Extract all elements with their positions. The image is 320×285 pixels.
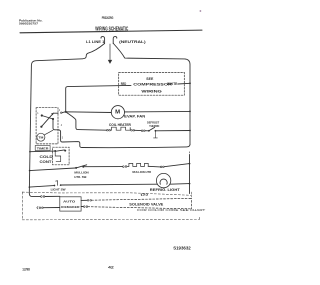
svg-text:AUTO: AUTO [63,200,76,204]
ground wire [109,44,111,60]
svg-text:REFRIG. LIGHT: REFRIG. LIGHT [150,188,180,192]
timer contact B [40,126,42,128]
svg-text:EVAP. FAN: EVAP. FAN [124,114,146,118]
timer node C [52,118,54,120]
connector pair heater left [107,129,109,131]
svg-text:THERMO: THERMO [149,124,160,128]
connector pair icemaker lower [39,207,41,209]
light row wire [29,186,53,188]
mullion switch contact right [82,166,84,168]
wire icemaker feed [29,193,40,197]
svg-text:MULLION: MULLION [74,170,89,174]
header publication text [19,18,43,25]
svg-text:4: 4 [61,125,63,127]
label COLD CONT [40,155,54,164]
label AUTO ICEMAKER [61,200,80,209]
cabinet boundary dashed horizontal [22,192,191,195]
node bus-coldcontrol [29,151,31,153]
timer contact A [41,114,43,116]
wire icemaker lower left [43,207,60,209]
svg-text:WIRING: WIRING [141,90,162,94]
wire mullion to heater [83,166,122,168]
svg-text:42: 42 [108,265,115,270]
plug terminal L1 hook [101,37,105,44]
label MULLION HTR. SW. [74,170,89,179]
wire defrost thermo to neutral [155,130,190,132]
node defrost-neutral [189,130,191,132]
connector pair icemaker feed [41,196,43,198]
timer blade arrowhead [52,113,54,115]
connector pair mullion right [160,166,162,168]
wire mullion heater to connectors [148,165,160,168]
wire evap fan feed [62,111,111,114]
svg-text:COLD: COLD [40,155,54,159]
plug terminal neutral hook [113,37,117,44]
timer motor stub [45,130,53,135]
defrost thermo blade [149,127,155,130]
cabinet boundary dashed left vertical [21,192,23,220]
svg-text:MULLION HTR: MULLION HTR [132,170,151,174]
timer blade exit wire [54,112,58,114]
connector pair thermo [141,130,143,132]
svg-text:2: 2 [59,110,61,112]
wire heater jog [66,112,106,130]
svg-text:COIL HEATER: COIL HEATER [109,123,132,127]
timer caption box [35,146,50,151]
wire light switch to lamp [62,183,158,186]
svg-text:WHITE: WHITE [167,82,177,86]
svg-text:ICEMAKER: ICEMAKER [61,205,80,209]
node mullion-neutral [189,163,191,165]
svg-text:S193632: S193632 [173,246,191,251]
svg-text:HTR. SW.: HTR. SW. [74,175,87,179]
wire evap fan to neutral [125,110,191,113]
cabinet boundary dashed bottom [22,219,199,221]
wire heater to thermo connectors [135,129,142,131]
mullion heater element [127,163,150,166]
header rule [20,30,202,33]
svg-text:L1 LINE 1: L1 LINE 1 [86,40,104,44]
mullion heater row wire [30,168,76,171]
svg-text:5995310757: 5995310757 [19,22,38,26]
defrost heater element [110,127,130,130]
svg-text:TIMER: TIMER [37,147,50,151]
node evap junction [65,111,67,113]
cold control feed wire [30,150,54,153]
label DEFROST THERMO [147,120,160,128]
defrost thermo contact left [148,130,150,132]
svg-text:(2): (2) [141,192,149,196]
connector pair mullion left [123,166,125,168]
node compressor-neutral [189,82,191,84]
wire timer motor return to neutral [53,119,190,148]
wire neutral leg to right bus [113,44,190,145]
svg-text:FOR COLOR CODE SEE CHART: FOR COLOR CODE SEE CHART [137,208,206,212]
timer motor TM [37,133,45,141]
svg-text:TM: TM [38,136,44,140]
cold control blade [55,150,64,151]
defrost thermo contact right [155,130,157,132]
wire compressor riser [66,85,131,111]
icemaker box [60,197,81,211]
cold control sensing element [55,152,61,162]
ground arrow [108,60,112,64]
svg-text:SOLENOID VALVE: SOLENOID VALVE [129,202,163,206]
svg-text:SEE: SEE [146,77,154,81]
node bus-mullion [29,170,31,172]
wire icemaker to solenoid bottom [81,206,83,208]
compressor box dashed [119,72,185,95]
svg-text:M: M [115,110,121,116]
mullion switch blade [76,165,87,168]
defrost timer box dashed [36,108,58,144]
svg-text:12/98: 12/98 [22,268,30,272]
label SEE COMPRESSOR WIRING [133,77,172,94]
lower neutral bus [189,155,191,194]
cold control contact left [54,150,56,152]
wire lamp to neutral [170,183,190,186]
solenoid valve bracket [190,198,192,208]
node bus-light [29,186,31,188]
svg-text:1: 1 [37,113,39,115]
wire icemaker to solenoid top [81,199,87,201]
scan speck [200,10,202,12]
svg-text:CONT: CONT [40,160,52,164]
wire compressor to neutral bus [178,82,190,85]
lamp filament [160,179,167,184]
wire mullion to lower neutral [164,164,189,167]
evap fan motor [111,106,124,119]
open plug end [37,207,38,209]
defrost thermo sensor tick [154,131,158,138]
svg-text:RED: RED [121,82,127,86]
light switch [54,185,56,187]
timer terminal 2 [61,112,63,114]
refrigerator lamp [156,173,170,187]
neutral bus gap dash [189,152,191,153]
mullion switch contact left [75,167,77,169]
cold control contact right [64,150,66,152]
node evap-neutral [189,111,191,113]
cabinet boundary dashed right ticks [192,192,200,220]
wire L1 leg to left bus [29,44,104,193]
svg-text:FRS26ZRG: FRS26ZRG [102,16,114,20]
svg-text:(NEUTRAL): (NEUTRAL) [119,40,146,44]
timer switch blade [41,113,53,126]
node lamp-neutral [189,183,191,185]
timer contact arm upper [42,116,53,120]
connector pair heater right [131,130,133,132]
svg-text:LIGHT SW: LIGHT SW [51,187,66,191]
svg-text:3: 3 [62,138,64,140]
cold control box dashed [53,147,70,165]
